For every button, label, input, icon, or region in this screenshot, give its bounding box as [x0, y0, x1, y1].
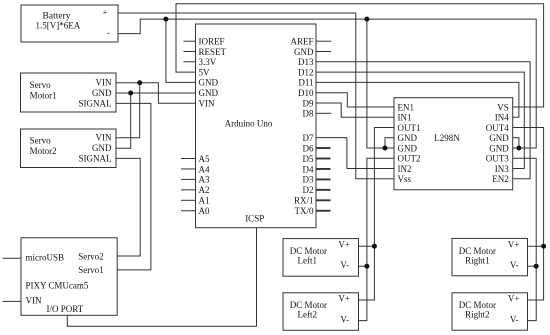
- wire servo1 SIGNAL to Pixy Servo1: [116, 103, 151, 270]
- Arduino left pin stubs A5-A0: [181, 158, 196, 160]
- wire battery+ to L298N Vss: [118, 13, 394, 179]
- svg-text:GND: GND: [199, 88, 219, 98]
- svg-text:GND: GND: [398, 143, 418, 153]
- DC motor Right2: [452, 293, 528, 330]
- Arduino Uno U1: [196, 24, 317, 228]
- svg-text:IN3: IN3: [495, 164, 509, 174]
- wire Arduino ICSP to Pixy I/O PORT: [67, 228, 256, 327]
- svg-text:A1: A1: [199, 196, 210, 206]
- PIXY CMUcam5 camera: [21, 238, 117, 315]
- wire servo2 VIN branch: [116, 83, 140, 138]
- svg-text:GND: GND: [92, 143, 112, 153]
- svg-text:D6: D6: [303, 143, 314, 153]
- node battery- junction left: [163, 17, 168, 22]
- svg-text:VIN: VIN: [26, 295, 42, 305]
- svg-text:GND: GND: [92, 88, 112, 98]
- svg-text:3.3V: 3.3V: [199, 57, 217, 67]
- svg-text:V+: V+: [508, 240, 520, 250]
- svg-text:Motor2: Motor2: [30, 146, 57, 156]
- wire Right1 V+ tap: [528, 245, 544, 247]
- Arduino right pin stubs AREF GND D8: [316, 40, 331, 42]
- wire L298N right GND1 bracket: [513, 138, 519, 148]
- svg-text:A3: A3: [199, 175, 210, 185]
- svg-text:Left2: Left2: [298, 310, 318, 320]
- svg-text:RX/1: RX/1: [294, 196, 314, 206]
- svg-text:L298N: L298N: [434, 133, 460, 143]
- svg-text:Left1: Left1: [298, 256, 318, 266]
- servo motor 1: [21, 73, 117, 112]
- svg-text:IN1: IN1: [398, 113, 412, 123]
- svg-text:A5: A5: [199, 154, 210, 164]
- svg-text:V-: V-: [340, 314, 349, 324]
- wire Pixy microUSB lead: [3, 257, 22, 259]
- wire Arduino 5V to L298N VS: [176, 4, 544, 107]
- svg-text:OUT4: OUT4: [486, 123, 509, 133]
- svg-text:VIN: VIN: [199, 98, 215, 108]
- svg-text:Arduino Uno: Arduino Uno: [225, 119, 273, 129]
- node L298N right GND junction: [516, 146, 521, 151]
- wire servo GND chain to Arduino GND: [116, 92, 196, 94]
- svg-text:SIGNAL: SIGNAL: [79, 154, 112, 164]
- svg-text:V+: V+: [338, 240, 350, 250]
- svg-text:Vss: Vss: [398, 174, 412, 184]
- svg-text:D9: D9: [303, 98, 314, 108]
- svg-text:OUT3: OUT3: [486, 154, 509, 164]
- svg-text:I/O PORT: I/O PORT: [47, 304, 84, 314]
- wire servo VIN chain to Arduino VIN: [116, 83, 196, 104]
- svg-text:PIXY CMUcam5: PIXY CMUcam5: [26, 280, 89, 290]
- wire D10 to EN1: [316, 93, 394, 107]
- svg-text:V+: V+: [508, 294, 520, 304]
- svg-text:Servo2: Servo2: [78, 252, 104, 262]
- battery B1: [21, 5, 118, 42]
- svg-text:IOREF: IOREF: [199, 37, 225, 47]
- svg-text:DC Motor: DC Motor: [290, 246, 327, 256]
- Arduino left pin stubs IOREF RESET 3.3V: [184, 40, 196, 42]
- wire battery- branch to Arduino GND: [166, 19, 196, 82]
- svg-text:D2: D2: [303, 185, 314, 195]
- wire D9 to IN1: [316, 103, 394, 117]
- svg-text:Right1: Right1: [465, 256, 490, 266]
- svg-text:D8: D8: [303, 109, 314, 119]
- wire OUT2 to left motors V-: [359, 158, 395, 320]
- wire battery- bus to L298N right GND: [118, 19, 536, 148]
- svg-text:D13: D13: [298, 57, 314, 67]
- wire servo2 GND branch: [116, 93, 131, 148]
- wire OUT1 to left motors V+: [359, 128, 395, 301]
- svg-text:D7: D7: [303, 133, 314, 143]
- svg-text:5V: 5V: [199, 67, 211, 77]
- node L298N left GND junction: [383, 146, 388, 151]
- svg-text:SIGNAL: SIGNAL: [79, 98, 112, 108]
- svg-text:1.5[V]*6EA: 1.5[V]*6EA: [36, 21, 81, 31]
- node servo VIN junction: [137, 80, 142, 85]
- svg-text:Servo: Servo: [30, 80, 51, 90]
- wire D7 to IN2: [316, 138, 394, 169]
- svg-text:VIN: VIN: [96, 133, 112, 143]
- svg-text:Servo1: Servo1: [78, 265, 104, 275]
- wire servo2 SIGNAL to Pixy Servo2: [116, 158, 140, 256]
- svg-text:microUSB: microUSB: [26, 253, 65, 263]
- svg-text:IN2: IN2: [398, 164, 412, 174]
- svg-text:-: -: [107, 29, 110, 39]
- wire Left1 V+ tap: [359, 245, 375, 247]
- svg-text:V+: V+: [338, 294, 350, 304]
- svg-text:EN2: EN2: [492, 174, 509, 184]
- svg-text:A2: A2: [199, 185, 210, 195]
- svg-text:D12: D12: [298, 67, 314, 77]
- svg-text:D4: D4: [303, 164, 314, 174]
- node right V- junction: [534, 264, 539, 269]
- svg-text:+: +: [103, 7, 108, 17]
- svg-text:ICSP: ICSP: [245, 214, 264, 224]
- DC motor Left2: [283, 293, 359, 331]
- node left V- junction: [364, 264, 369, 269]
- node servo GND junction: [128, 91, 133, 96]
- svg-text:Right2: Right2: [465, 310, 490, 320]
- svg-text:VIN: VIN: [96, 78, 112, 88]
- svg-text:TX/0: TX/0: [295, 206, 314, 216]
- svg-text:D3: D3: [303, 175, 314, 185]
- svg-text:A4: A4: [199, 164, 210, 174]
- svg-text:AREF: AREF: [290, 37, 313, 47]
- svg-text:GND: GND: [199, 78, 219, 88]
- wire D13 to EN2: [316, 62, 530, 179]
- svg-text:V-: V-: [340, 260, 349, 270]
- wire Left1 V- tap: [359, 265, 367, 267]
- wire Right1 V- tap: [528, 265, 537, 267]
- node left V+ junction: [372, 244, 377, 249]
- svg-text:Motor1: Motor1: [30, 91, 57, 101]
- svg-text:IN4: IN4: [495, 113, 509, 123]
- svg-text:GND: GND: [489, 133, 509, 143]
- DC motor Left1: [283, 239, 359, 277]
- svg-text:D10: D10: [298, 88, 314, 98]
- svg-text:A0: A0: [199, 206, 210, 216]
- svg-text:GND: GND: [398, 133, 418, 143]
- servo motor 2: [21, 129, 117, 168]
- node battery- junction right: [364, 17, 369, 22]
- svg-text:D5: D5: [303, 154, 314, 164]
- svg-text:EN1: EN1: [398, 102, 415, 112]
- svg-text:VS: VS: [497, 102, 509, 112]
- svg-text:OUT1: OUT1: [398, 123, 421, 133]
- svg-text:DC Motor: DC Motor: [459, 300, 496, 310]
- wire battery- branch to L298N left GND: [367, 19, 394, 148]
- svg-text:GND: GND: [489, 143, 509, 153]
- wire D12 to IN3: [316, 72, 524, 168]
- svg-text:V-: V-: [510, 260, 519, 270]
- wire D11 to IN4: [316, 82, 519, 117]
- svg-text:RESET: RESET: [199, 47, 227, 57]
- DC motor Right1: [452, 238, 528, 275]
- motor driver L298N U2: [394, 98, 513, 190]
- svg-text:GND: GND: [294, 47, 314, 57]
- node right V+ junction: [541, 244, 546, 249]
- Arduino right bold pin stubs D6 D5 D4 D3 D2 RX/1 TX/0: [317, 147, 331, 149]
- wire OUT4 to right motors V+: [513, 128, 544, 301]
- svg-text:V-: V-: [510, 314, 519, 324]
- wire L298N left GND1 bracket: [385, 138, 394, 148]
- svg-text:DC Motor: DC Motor: [290, 300, 327, 310]
- wire OUT3 to right motors V-: [513, 158, 537, 320]
- svg-text:Servo: Servo: [30, 136, 51, 146]
- wire Pixy VIN lead: [3, 300, 22, 302]
- svg-text:OUT2: OUT2: [398, 154, 421, 164]
- svg-text:D11: D11: [298, 78, 313, 88]
- svg-text:DC Motor: DC Motor: [459, 246, 496, 256]
